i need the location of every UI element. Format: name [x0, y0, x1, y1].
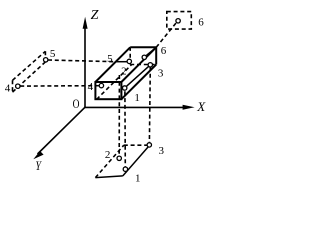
svg-text:3: 3 — [158, 68, 164, 80]
svg-text:O: O — [73, 98, 80, 112]
svg-text:2: 2 — [121, 65, 127, 77]
svg-text:2: 2 — [105, 149, 111, 161]
svg-text:6: 6 — [198, 16, 204, 28]
svg-text:4: 4 — [88, 81, 94, 93]
svg-text:X: X — [196, 99, 206, 114]
svg-text:1: 1 — [134, 92, 140, 104]
svg-text:5: 5 — [50, 48, 56, 60]
svg-text:1: 1 — [135, 173, 141, 185]
svg-text:5: 5 — [107, 53, 113, 65]
svg-text:4: 4 — [5, 82, 11, 94]
svg-text:6: 6 — [161, 45, 167, 57]
svg-text:3: 3 — [159, 145, 165, 157]
svg-text:Z: Z — [91, 8, 99, 23]
